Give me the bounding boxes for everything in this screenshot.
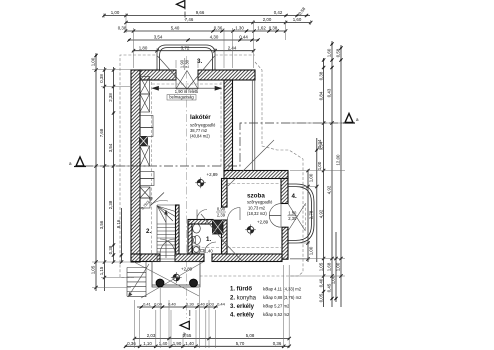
survey point szoba (247, 226, 254, 233)
svg-text:1,40: 1,40 (205, 249, 214, 254)
svg-text:szőnyegpadló: szőnyegpadló (190, 123, 216, 128)
svg-text:kőlap 5,27 m2: kőlap 5,27 m2 (263, 304, 290, 309)
section marker b top (177, 1, 185, 9)
svg-text:1,10: 1,10 (143, 341, 152, 346)
bottom dimension rows (135, 338, 290, 340)
porch dimension row (137, 306, 218, 308)
svg-text:1,50: 1,50 (288, 211, 297, 216)
svg-text:5,70: 5,70 (236, 341, 245, 346)
roof hip diagonals (201, 140, 274, 262)
porch slab (152, 262, 200, 288)
svg-text:2,30: 2,30 (288, 216, 297, 221)
svg-text:1,30: 1,30 (186, 302, 195, 307)
szoba door arc (227, 208, 240, 221)
svg-text:0,36: 0,36 (214, 26, 223, 31)
wardrobe units along left wall (140, 77, 154, 209)
svg-text:1,05: 1,05 (91, 265, 96, 274)
svg-text:2.30: 2.30 (185, 59, 190, 68)
svg-text:1,15: 1,15 (99, 266, 104, 275)
svg-text:0,44: 0,44 (239, 35, 248, 40)
section marker a right (345, 114, 353, 123)
svg-text:3,56: 3,56 (99, 220, 104, 229)
svg-text:szoba: szoba (247, 193, 265, 200)
balcony door french doors (269, 204, 305, 231)
entrance door arc (160, 239, 175, 254)
bathroom: sink (193, 224, 201, 233)
right dimension columns (307, 171, 309, 263)
dark stove block (140, 137, 148, 146)
entrance jambs (159, 254, 161, 262)
porch columns (156, 279, 164, 287)
legend (230, 287, 257, 319)
svg-text:lakótér: lakótér (190, 114, 211, 121)
svg-text:(40,84 m2): (40,84 m2) (190, 134, 210, 139)
svg-text:kőlap 0,88 (3,76) m2: kőlap 0,88 (3,76) m2 (263, 295, 302, 300)
svg-text:9,54: 9,54 (318, 141, 323, 150)
svg-text:1,00: 1,00 (331, 275, 336, 284)
svg-text:kőlap 5,52 m2: kőlap 5,52 m2 (263, 312, 290, 317)
svg-text:1,40: 1,40 (185, 341, 194, 346)
svg-text:1,90: 1,90 (173, 341, 182, 346)
svg-text:1,00: 1,00 (111, 10, 120, 15)
svg-text:4. erkély: 4. erkély (230, 313, 255, 319)
chimney (213, 220, 224, 234)
svg-text:szőnyegpadló: szőnyegpadló (247, 200, 273, 205)
svg-text:3. erkély: 3. erkély (230, 304, 255, 310)
svg-text:1,00: 1,00 (336, 262, 341, 271)
svg-text:0,36: 0,36 (127, 341, 136, 346)
survey point lakoter (197, 179, 204, 186)
svg-text:+2,89: +2,89 (207, 172, 219, 177)
svg-text:1,30: 1,30 (235, 26, 244, 31)
svg-text:12,00: 12,00 (336, 154, 341, 166)
stair walk line arrow (165, 212, 167, 258)
svg-text:0,38: 0,38 (318, 71, 323, 80)
roof eave dashed outline (120, 55, 303, 278)
section line a-a (84, 123, 345, 166)
svg-text:0,58: 0,58 (336, 48, 341, 57)
section marker a left (76, 157, 84, 166)
svg-text:38,77 m2: 38,77 m2 (190, 128, 208, 133)
svg-text:1. fürdő: 1. fürdő (230, 287, 252, 293)
svg-text:2,38: 2,38 (108, 200, 113, 209)
section marker b bottom (180, 321, 189, 329)
top door X symbol (158, 56, 215, 89)
svg-text:0,90: 0,90 (217, 207, 226, 212)
svg-text:8,16: 8,16 (116, 219, 121, 228)
svg-text:0,38: 0,38 (99, 74, 104, 83)
svg-text:0,41: 0,41 (143, 302, 152, 307)
svg-text:2,38: 2,38 (108, 93, 113, 102)
svg-text:0,38: 0,38 (269, 26, 278, 31)
svg-text:1,00: 1,00 (308, 173, 313, 182)
svg-text:1.: 1. (206, 236, 211, 243)
svg-text:1,68: 1,68 (327, 262, 332, 271)
svg-text:kőlap 4,11 (4,33) m2: kőlap 4,11 (4,33) m2 (263, 287, 302, 292)
svg-text:5,08: 5,08 (246, 333, 255, 338)
svg-text:(18,32 m2): (18,32 m2) (247, 211, 267, 216)
exterior steps (127, 262, 146, 297)
svg-text:1,05: 1,05 (318, 262, 323, 271)
svg-text:2,00: 2,00 (263, 17, 272, 22)
svg-text:2.: 2. (146, 228, 151, 235)
svg-text:0,40: 0,40 (318, 278, 323, 287)
staircase (157, 205, 176, 260)
svg-text:3,54: 3,54 (154, 35, 163, 40)
svg-text:0,40: 0,40 (168, 302, 177, 307)
balcony 4 (right, rounded) (288, 184, 314, 243)
svg-text:2. konyha: 2. konyha (230, 296, 257, 302)
balcony 3 (top, rounded) (157, 45, 215, 71)
svg-text:belmagasság: belmagasság (169, 95, 194, 100)
svg-text:0,40: 0,40 (197, 302, 206, 307)
svg-text:9,66: 9,66 (196, 10, 205, 15)
svg-text:0,38: 0,38 (118, 26, 127, 31)
svg-text:1,90 m feletti: 1,90 m feletti (175, 89, 199, 94)
svg-text:0,05: 0,05 (318, 293, 323, 302)
bathroom: washer (193, 246, 200, 253)
svg-text:0,03: 0,03 (206, 302, 215, 307)
left dimension columns (95, 53, 97, 291)
svg-text:2,78: 2,78 (308, 210, 313, 219)
svg-text:1,60: 1,60 (327, 48, 332, 57)
svg-text:3,54: 3,54 (108, 143, 113, 152)
svg-text:4.: 4. (292, 193, 297, 200)
svg-text:0,44: 0,44 (217, 302, 226, 307)
konyha door leaf (151, 193, 165, 206)
svg-text:0,84: 0,84 (318, 91, 323, 100)
svg-text:2,03: 2,03 (147, 333, 156, 338)
survey point porch (173, 274, 180, 281)
svg-text:10,73 m2: 10,73 m2 (248, 206, 266, 211)
svg-text:1,62: 1,62 (257, 26, 266, 31)
headroom dashed lines (152, 82, 306, 253)
bathroom: wc (194, 236, 201, 245)
svg-text:2,55: 2,55 (183, 333, 192, 338)
svg-text:0,36: 0,36 (273, 341, 282, 346)
svg-text:0,43: 0,43 (327, 88, 332, 97)
top dimension rows (104, 15, 310, 17)
svg-text:1,00: 1,00 (91, 57, 96, 66)
svg-text:1,60: 1,60 (293, 17, 302, 22)
building walls (131, 70, 288, 262)
svg-text:0,42: 0,42 (274, 10, 283, 15)
svg-text:1,80: 1,80 (139, 45, 148, 50)
svg-text:7,68: 7,68 (99, 128, 104, 137)
svg-text:1,00: 1,00 (308, 246, 313, 255)
center dashed axis vertical (186, 56, 188, 318)
bathroom door arc (197, 210, 207, 220)
svg-text:1,00: 1,00 (317, 161, 322, 170)
svg-text:+2,89: +2,89 (257, 220, 269, 225)
svg-text:0,38: 0,38 (108, 245, 113, 254)
headroom arrow (153, 86, 222, 90)
svg-text:3,72: 3,72 (181, 45, 190, 50)
lower storey wall edge (double line) (251, 80, 253, 171)
svg-text:2,39: 2,39 (217, 213, 226, 218)
svg-text:7,46: 7,46 (185, 17, 194, 22)
svg-text:4,30: 4,30 (210, 35, 219, 40)
svg-text:5,40: 5,40 (171, 26, 180, 31)
svg-text:4,92: 4,92 (318, 209, 323, 218)
svg-text:0,04: 0,04 (154, 302, 163, 307)
porch X diagonals (134, 262, 203, 298)
svg-text:4,92: 4,92 (327, 185, 332, 194)
